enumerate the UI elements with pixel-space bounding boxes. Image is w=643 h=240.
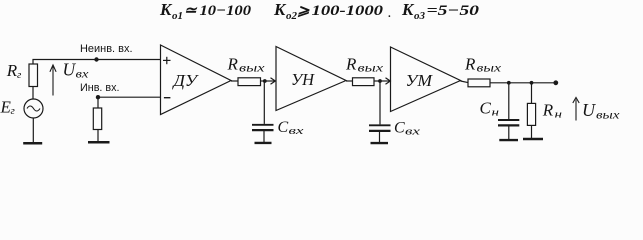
svg-text:K: K	[159, 0, 173, 19]
label Cвх 1	[278, 119, 304, 137]
resistor Rвых 1	[238, 78, 261, 86]
wire node C down to Cн	[508, 83, 510, 119]
svg-text:Неинв. вх.: Неинв. вх.	[80, 43, 133, 55]
svg-text:K: K	[401, 0, 415, 19]
wire source to ground	[32, 118, 34, 142]
node B (junction to Cвх2)	[378, 79, 382, 83]
wire УН output to Rвых2	[346, 80, 353, 82]
resistor Rвых 3	[468, 79, 490, 87]
svg-text:вых: вых	[239, 63, 266, 75]
arrow Uвх	[50, 65, 56, 96]
resistor Rвых 2	[353, 78, 375, 86]
label Rн	[542, 100, 563, 120]
svg-text:н: н	[555, 108, 563, 120]
wire inverting input line	[98, 96, 161, 98]
svg-text:о1: о1	[172, 10, 183, 22]
wire resistor to ground	[97, 130, 99, 142]
svg-text:≃: ≃	[184, 3, 198, 19]
svg-text:U: U	[63, 60, 77, 80]
svg-text:U: U	[582, 100, 596, 120]
label Uвых	[582, 100, 621, 122]
ground under Cн	[499, 139, 518, 141]
svg-text:ДУ: ДУ	[171, 71, 199, 90]
svg-text:г: г	[11, 105, 16, 117]
resistor Rн	[527, 103, 535, 125]
svg-text:С: С	[480, 98, 492, 117]
wire Rвых1 to УН input with arrow	[261, 80, 275, 82]
gain formula Ko1 = 10-100	[159, 0, 252, 22]
node dot inverting input	[96, 95, 100, 99]
svg-text:R: R	[227, 55, 239, 74]
label Uвх with arrow	[63, 60, 90, 81]
wire ДУ output to Rвых1	[231, 80, 238, 82]
svg-text:С: С	[278, 119, 289, 136]
wire node D down to Rн	[531, 83, 533, 104]
resistor Rг	[29, 64, 38, 87]
wire Cвх1 to ground	[263, 131, 265, 142]
node dot non-inverting input	[94, 57, 98, 61]
wire Rн to ground	[531, 125, 533, 138]
label Rг	[6, 61, 22, 81]
svg-text:вх: вх	[76, 69, 90, 81]
node D (junction to Rн)	[530, 81, 534, 85]
label Rвых 3	[464, 55, 502, 75]
wire УМ output to Rвых3	[461, 81, 469, 83]
wire Rвых2 to УМ input with arrow	[374, 80, 390, 82]
wire output node	[490, 82, 556, 84]
label Rвых 2	[345, 55, 384, 75]
svg-text:R: R	[464, 55, 476, 74]
svg-text:=5−50: =5−50	[427, 3, 480, 19]
arrow Uвых	[573, 98, 579, 121]
gain formula Ko3 = 5-50	[401, 0, 480, 22]
capacitor Cвх 1	[252, 125, 274, 130]
wire from inverting node down to resistor	[97, 97, 99, 108]
op-amp УН	[276, 47, 346, 111]
wire from Rг top to non-inverting input line	[33, 60, 161, 65]
svg-text:о2: о2	[286, 10, 298, 22]
capacitor Cн	[498, 120, 519, 125]
ground under Cвх1	[255, 142, 272, 144]
op-amp ДУ	[161, 45, 232, 115]
wire node B down to Cвх2	[379, 81, 381, 124]
node A (junction to Cвх1)	[263, 79, 267, 83]
svg-text:вых: вых	[596, 110, 621, 122]
svg-text:вых: вых	[477, 63, 503, 75]
svg-text:вх: вх	[405, 126, 420, 138]
op-amp УМ	[391, 47, 461, 112]
svg-text:K: K	[273, 0, 287, 19]
pin + (non-inverting)	[163, 57, 171, 64]
terminal dot output	[553, 80, 558, 85]
ground under Cвх2	[371, 142, 389, 144]
svg-text:R: R	[345, 55, 357, 74]
label Eг	[0, 97, 16, 117]
svg-text:УН: УН	[291, 70, 316, 89]
ground under Eг	[23, 142, 42, 145]
svg-text:УМ: УМ	[406, 71, 433, 90]
svg-text:R: R	[542, 100, 554, 119]
svg-text:г: г	[17, 69, 22, 81]
svg-text:⩾: ⩾	[297, 3, 310, 19]
svg-text:.: .	[388, 8, 391, 20]
wire Rг bottom to source	[32, 87, 34, 100]
wire Cн to ground	[508, 126, 510, 139]
svg-text:н: н	[492, 106, 500, 118]
svg-text:вых: вых	[358, 63, 385, 75]
source Eг (AC)	[24, 99, 43, 118]
svg-text:Инв. вх.: Инв. вх.	[80, 82, 120, 94]
svg-text:о3: о3	[414, 10, 426, 22]
svg-text:С: С	[394, 120, 405, 137]
wire node A down to Cвх1	[263, 81, 265, 124]
label Rвых 1	[227, 55, 266, 75]
label Cвх 2	[394, 120, 420, 138]
wire Cвх2 to ground	[379, 132, 381, 142]
node C (junction to Cн)	[507, 81, 511, 85]
label Cн	[480, 98, 500, 118]
svg-text:R: R	[6, 61, 18, 80]
svg-text:10−100: 10−100	[200, 3, 252, 19]
svg-text:100-1000: 100-1000	[312, 3, 384, 19]
svg-text:вх: вх	[289, 125, 304, 137]
capacitor Cвх 2	[369, 125, 391, 131]
ground under Rн	[523, 138, 543, 140]
ground under inverting resistor	[88, 141, 110, 144]
pin - (inverting)	[164, 97, 171, 99]
resistor on inverting input	[93, 108, 101, 130]
gain formula Ko2 >= 100-1000	[273, 0, 391, 22]
